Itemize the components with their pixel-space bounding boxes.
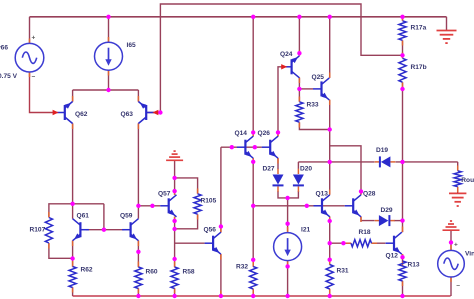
node arrow Q24 base: [281, 64, 287, 69]
resistor R60: [135, 267, 142, 289]
wire v66 minus to Q62 base: [30, 73, 57, 113]
ground node A: [166, 151, 183, 160]
svg-text:Q62: Q62: [75, 111, 88, 118]
wire Q14 collector to bus: [252, 17, 254, 136]
wire Vin ground stem: [450, 230, 452, 250]
svg-text:I21: I21: [301, 227, 310, 234]
wire Q63 base net: [146, 4, 402, 113]
diode D20: [293, 175, 304, 186]
svg-text:v66: v66: [0, 45, 8, 52]
transistor Q63: [138, 102, 154, 124]
wire Q25 emitter down: [329, 100, 331, 130]
svg-text:+: +: [32, 35, 36, 42]
resistor R17b: [399, 58, 406, 82]
resistor R18: [351, 240, 372, 247]
wire D19 anode to output: [396, 161, 458, 163]
svg-text:R33: R33: [307, 102, 319, 109]
wire Q62 collector down: [72, 124, 74, 204]
ground below Rout: [449, 193, 466, 206]
svg-text:Rout: Rout: [461, 177, 474, 184]
wire R107 top branch: [49, 204, 104, 217]
transistor Q61: [73, 219, 89, 241]
svg-text:D19: D19: [376, 147, 388, 154]
svg-text:R58: R58: [183, 269, 195, 276]
voltage source Vin: [438, 250, 465, 277]
svg-text:Q26: Q26: [258, 130, 271, 137]
transistor Q25: [313, 78, 329, 100]
wire node A to R105 top: [175, 178, 198, 194]
wire Q14 emitter down to R32: [252, 158, 254, 266]
resistor R17a: [399, 21, 406, 41]
resistor R13: [399, 261, 406, 281]
wire R60 to bus: [137, 289, 139, 297]
wire junction to I21: [287, 198, 289, 233]
transistor Q62: [56, 102, 72, 124]
wire base line Q13 Q28: [253, 205, 345, 207]
wire Q57 emitter to R58: [174, 217, 176, 267]
wire Q24 emitter to Q25 base: [299, 88, 313, 90]
wire R62 to ground bus: [72, 288, 74, 297]
svg-text:Q61: Q61: [77, 213, 90, 220]
svg-text:R60: R60: [146, 269, 158, 276]
svg-text:+: +: [454, 242, 458, 249]
wire emitter rail Q62-Q63: [73, 89, 139, 91]
svg-text:Q24: Q24: [280, 51, 293, 58]
svg-text:Q57: Q57: [158, 191, 171, 198]
svg-text:R105: R105: [201, 198, 217, 205]
wire rail to Q63 emitter: [137, 90, 139, 102]
wire Rout to ground: [457, 187, 459, 193]
svg-text:R32: R32: [236, 264, 248, 271]
transistor Q24: [283, 56, 299, 78]
svg-text:D20: D20: [300, 166, 312, 173]
current source I21: [274, 233, 302, 261]
wire bias column: [329, 130, 331, 195]
transistor Q26: [262, 136, 278, 158]
wire node to R18: [330, 242, 351, 244]
wire Q12 emitter to R13: [402, 254, 404, 261]
wire Q63 collector down: [137, 124, 139, 219]
svg-text:Q28: Q28: [363, 191, 376, 198]
svg-text:R107: R107: [30, 227, 46, 234]
resistor Rout: [454, 171, 461, 187]
node arrow Q63 base: [152, 110, 158, 115]
svg-text:Q13: Q13: [316, 191, 329, 198]
wire Q61 base riser: [103, 204, 105, 230]
wire R105 bottom to emitter line: [175, 215, 198, 229]
resistor R32: [250, 267, 257, 290]
wire Q26 emitter to D27: [277, 158, 279, 169]
svg-text:R62: R62: [81, 267, 93, 274]
svg-text:R18: R18: [359, 229, 371, 236]
wire Q24 emitter to R33: [298, 78, 300, 102]
resistor R105: [194, 194, 201, 214]
wire Q56 collector up: [220, 147, 222, 232]
wire ground stem node A: [174, 161, 176, 178]
wire Q14 Q26 base tie: [245, 146, 261, 148]
wire Q63 collector to Q57 base: [138, 205, 160, 207]
transistor Q56: [205, 232, 221, 254]
diode D19: [380, 156, 391, 167]
wire output to Rout: [457, 162, 459, 171]
node arrow Q62 base: [53, 110, 59, 115]
wire Q56 base tap: [175, 242, 205, 244]
resistor R107: [45, 218, 52, 244]
wire Q59 emitter to R60: [137, 241, 139, 267]
svg-text:D29: D29: [381, 207, 393, 214]
svg-text:R13: R13: [408, 262, 420, 269]
svg-text:R31: R31: [337, 268, 349, 275]
svg-text:Q63: Q63: [121, 111, 134, 118]
resistor R33: [296, 102, 303, 122]
wire Q13 emitter to R31: [329, 243, 331, 264]
wire Q61 base to Q59 base: [86, 229, 124, 231]
wire Q28 emitter to D29: [361, 217, 375, 221]
transistor Q14: [237, 136, 253, 158]
wire Q61 collector: [72, 204, 74, 219]
wire Q26 collector to Q24 base: [278, 67, 283, 136]
wire R33 bottom to node: [299, 123, 329, 130]
wire node A to Q57 collector: [174, 178, 176, 195]
wire output column: [402, 89, 404, 232]
wire D29 cathode to output: [394, 220, 403, 222]
wire Q24 collector up: [298, 17, 300, 56]
svg-text:R17b: R17b: [411, 64, 427, 71]
wire bias line to D19: [298, 161, 374, 163]
wire diode cathodes join: [278, 191, 298, 198]
wire R13 to bus: [402, 281, 404, 296]
wire Q25 collector to bus: [329, 17, 331, 78]
wire Q14 base feed: [221, 146, 237, 148]
wire ground stem top right: [446, 17, 448, 30]
svg-text:R17a: R17a: [411, 24, 427, 31]
svg-text:I65: I65: [127, 42, 136, 49]
svg-text:D27: D27: [263, 166, 275, 173]
wire R17b bottom: [402, 83, 404, 90]
transistor Q57: [160, 195, 176, 217]
transistor Q12: [386, 232, 402, 254]
wire bottom ground bus: [73, 295, 451, 297]
svg-text:Q12: Q12: [386, 253, 399, 260]
svg-text:−: −: [456, 283, 460, 290]
wire R17a bottom junction: [402, 41, 404, 59]
transistor Q28: [345, 195, 361, 217]
current source I65: [95, 42, 123, 70]
wire to Q28 collector: [330, 146, 361, 195]
wire Vin bottom to bus: [450, 277, 452, 296]
svg-text:Q14: Q14: [235, 130, 248, 137]
svg-text:0.75 V: 0.75 V: [0, 73, 18, 80]
transistor Q13: [314, 195, 330, 217]
wire R107 bottom branch: [49, 244, 73, 259]
svg-text:Q56: Q56: [204, 227, 217, 234]
transistor Q59: [122, 219, 138, 241]
resistor R58: [171, 267, 178, 289]
wire v66 plus to bus: [29, 17, 31, 43]
diode D29: [379, 215, 390, 226]
wire Q13 emitter down: [329, 217, 331, 243]
diode D27: [273, 175, 284, 186]
wire rail to Q62 emitter: [72, 90, 74, 102]
wire I65 top: [108, 17, 110, 42]
ground above Vin: [443, 221, 460, 230]
svg-text:−: −: [32, 74, 36, 81]
wire Q56 emitter to bus: [220, 254, 222, 296]
wire D20 anode riser: [297, 162, 299, 169]
wire top supply bus: [30, 16, 447, 18]
wire R18 to Q12 base: [372, 242, 386, 244]
wire I65 bottom to emitter rail: [108, 71, 110, 91]
svg-text:Vin: Vin: [465, 251, 474, 258]
voltage source v66: [15, 43, 44, 72]
wire R31 to bus: [329, 289, 331, 296]
wire R58 to bus: [174, 289, 176, 297]
resistor R62: [69, 267, 76, 288]
wire R32 to bus: [252, 289, 254, 296]
wire I21 to bus: [287, 261, 289, 296]
wire Q61 emitter to R62: [72, 241, 74, 267]
ground top right: [437, 31, 457, 44]
svg-text:Q59: Q59: [120, 213, 133, 220]
svg-text:Q25: Q25: [312, 74, 325, 81]
wire R17a top: [402, 17, 404, 21]
resistor R31: [326, 265, 333, 290]
